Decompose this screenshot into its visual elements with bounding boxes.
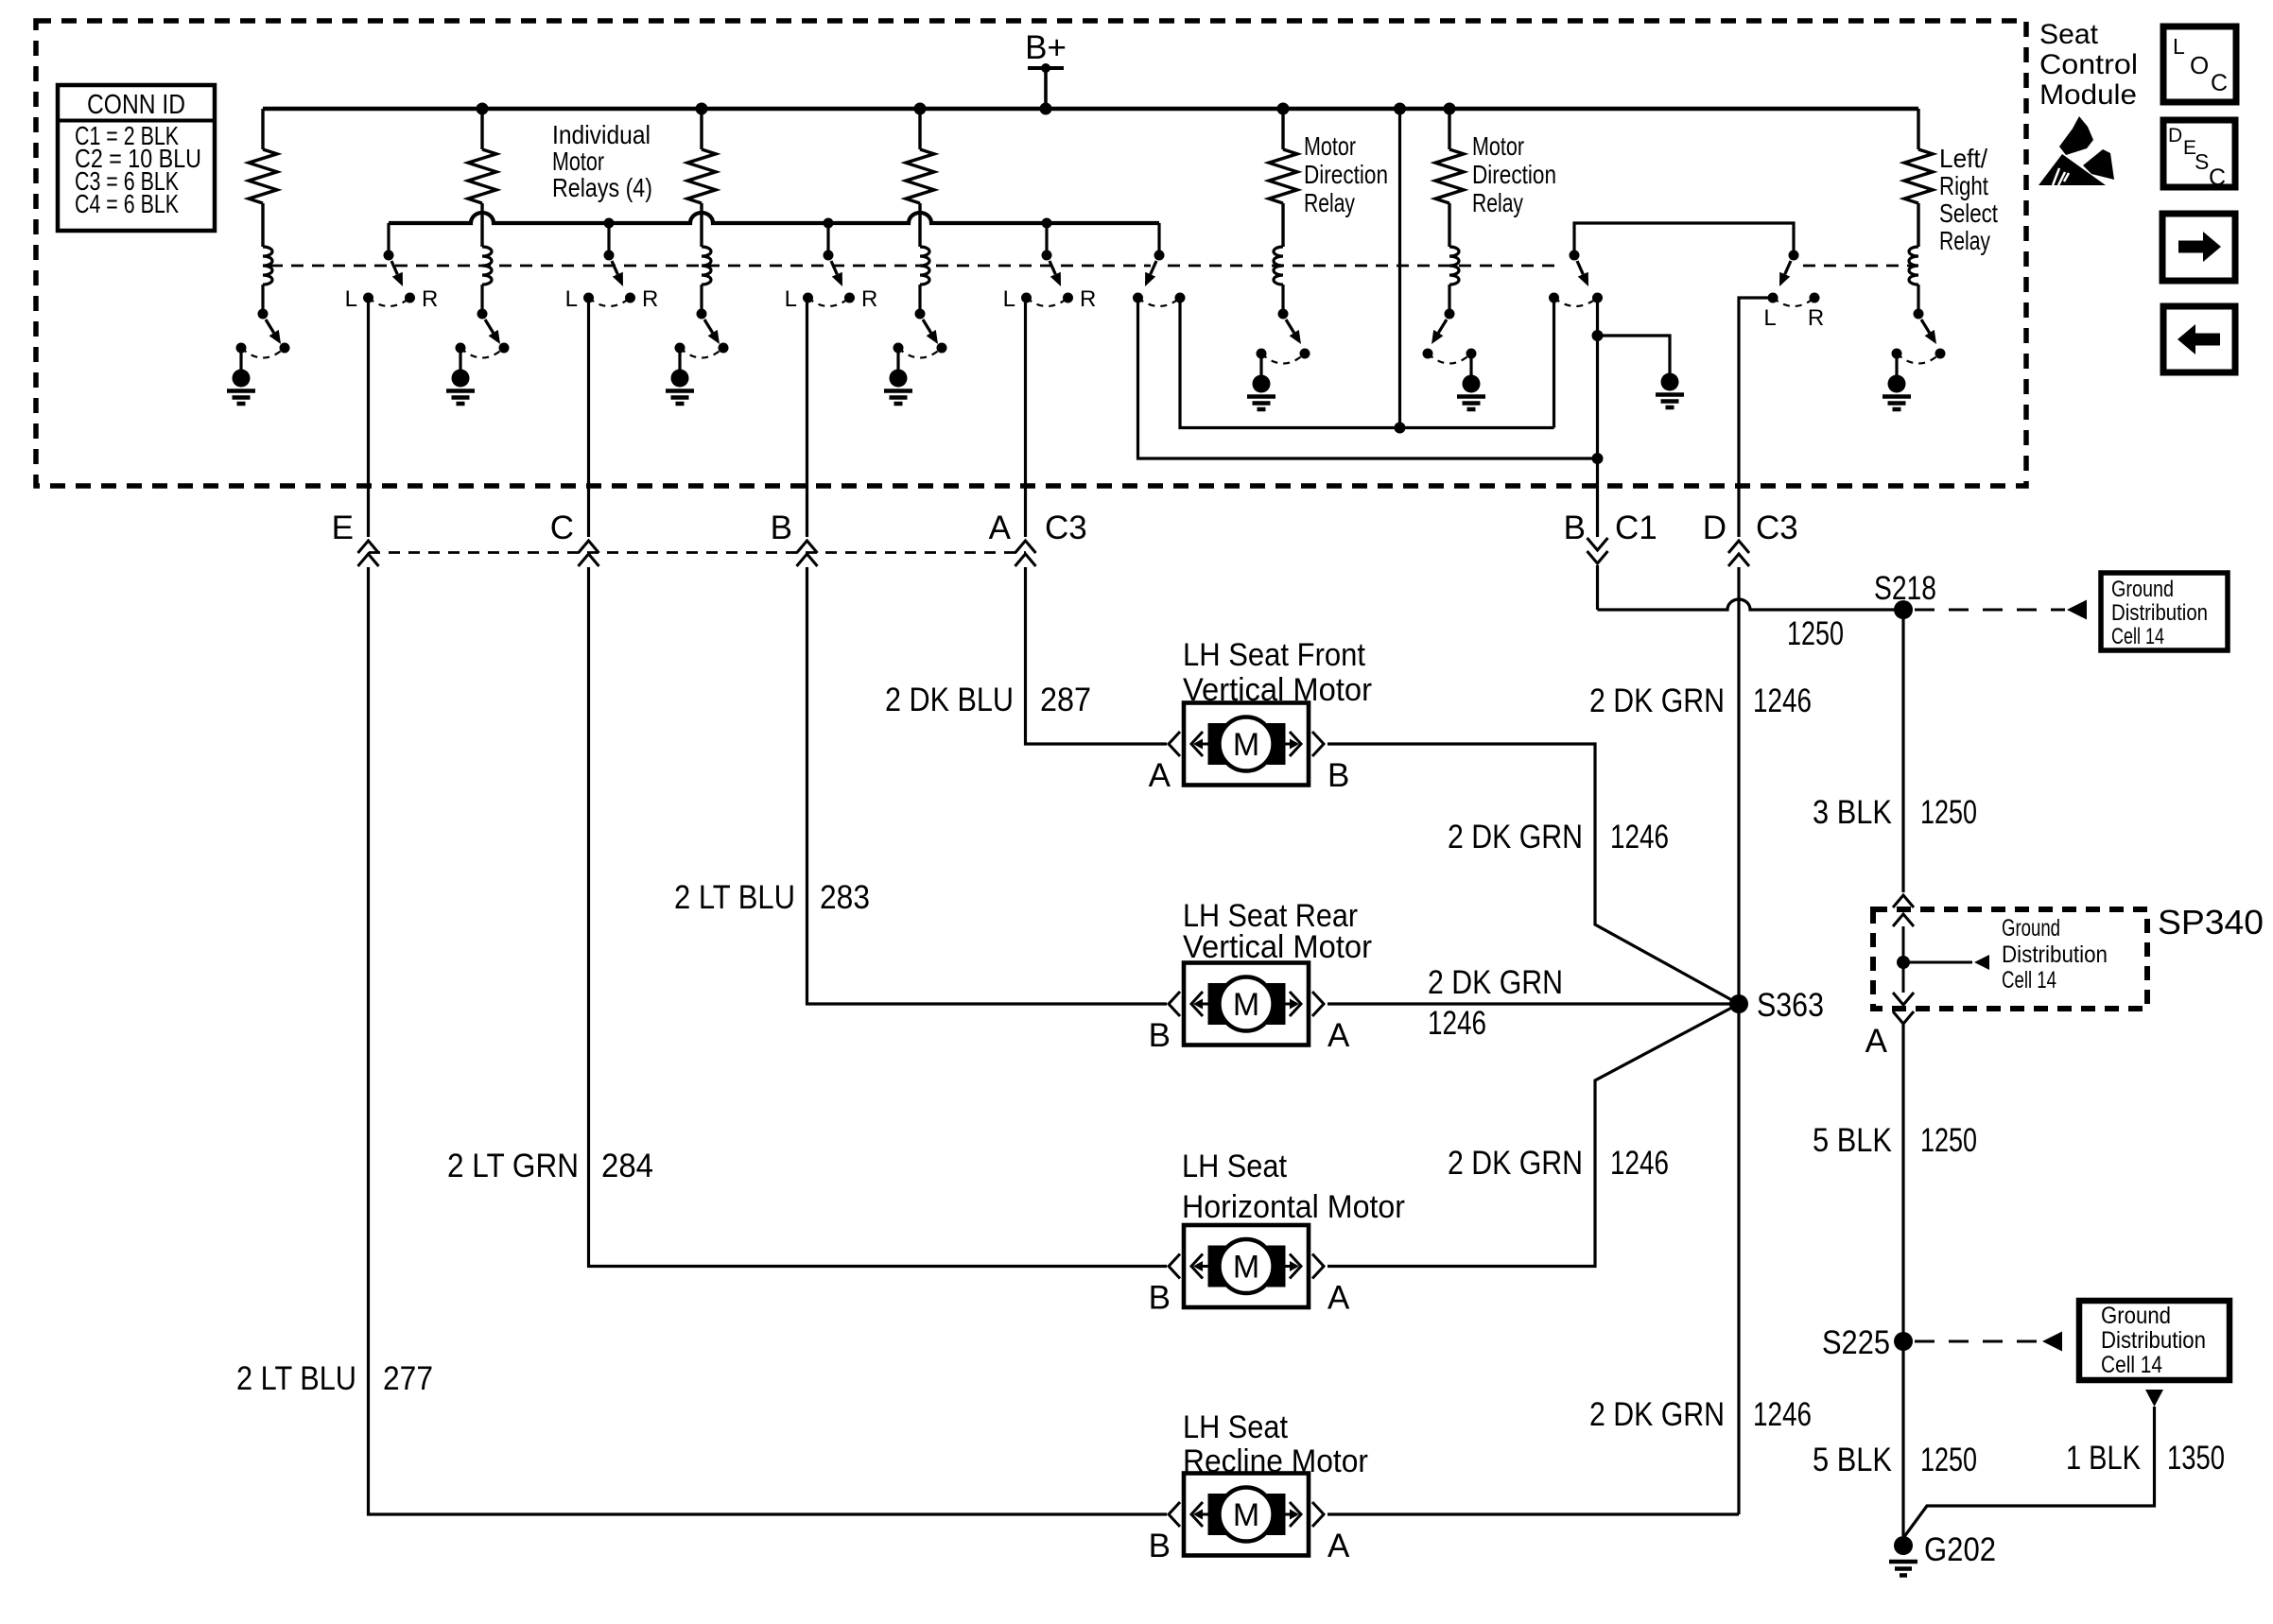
- wire: pin A from switch to border: [1024, 302, 1027, 537]
- label: connector C1: [1615, 510, 1657, 546]
- label: L/R of pair 3: [785, 286, 878, 312]
- wire: pair6 L to crossover: [1553, 302, 1555, 428]
- relay K2 resistor: [468, 109, 496, 203]
- svg-text:L: L: [1763, 305, 1776, 331]
- svg-text:1250: 1250: [1920, 794, 1977, 831]
- ground (relay K4): [884, 353, 912, 404]
- label: G202: [1924, 1531, 1996, 1568]
- label: 3 BLK 1250: [1813, 794, 1977, 831]
- svg-text:SP340: SP340: [2158, 903, 2264, 942]
- label: Motor Direction Relay (left): [1304, 131, 1388, 217]
- svg-text:M: M: [1233, 1250, 1259, 1286]
- label: S225: [1822, 1324, 1890, 1361]
- switch pair 5: [1133, 251, 1186, 307]
- seat control module dashed enclosure: [36, 21, 2026, 486]
- svg-text:Horizontal Motor: Horizontal Motor: [1182, 1189, 1405, 1225]
- svg-text:R: R: [1080, 286, 1096, 312]
- relay K4 coil: [920, 203, 929, 285]
- svg-text:E: E: [332, 510, 354, 546]
- reference arrow (S225): [2042, 1332, 2062, 1352]
- label: S218: [1874, 570, 1936, 607]
- svg-text:Motor: Motor: [552, 147, 604, 176]
- svg-text:Distribution: Distribution: [2002, 942, 2108, 968]
- motor direction relay K6 coil: [1449, 203, 1459, 285]
- svg-text:L: L: [1003, 286, 1015, 312]
- node: SP340 junction: [1897, 956, 1910, 969]
- relay K3 coil: [702, 203, 711, 285]
- ground (relay K2): [446, 353, 475, 404]
- svg-text:2 DK GRN: 2 DK GRN: [1589, 1396, 1725, 1433]
- relay K2 switch: [456, 285, 510, 358]
- wire: pin E from switch to border: [367, 302, 370, 537]
- wire 284: pin C to horizontal motor: [589, 567, 1168, 1267]
- svg-text:Ground: Ground: [2101, 1303, 2171, 1329]
- relay K1 switch: [236, 285, 290, 358]
- relay K2 coil: [482, 203, 492, 285]
- svg-text:A: A: [1327, 1017, 1350, 1054]
- node: sub-bus junction: [604, 218, 615, 229]
- box: Ground Distribution Cell 14 (S225): [2079, 1301, 2230, 1380]
- node: bus tap for relay K2: [477, 103, 489, 115]
- label: connector C3 (pin A): [1045, 510, 1087, 546]
- label: 5 BLK 1250 (upper): [1813, 1122, 1977, 1159]
- relay K4 resistor: [906, 109, 934, 203]
- box: Ground Distribution Cell 14 (S218): [2101, 573, 2228, 650]
- node: ground branch junction: [1592, 330, 1604, 341]
- svg-text:S363: S363: [1757, 987, 1824, 1024]
- wire: pair5 R to crossover: [1180, 302, 1554, 428]
- svg-text:1246: 1246: [1428, 1005, 1486, 1042]
- label: pin B (C1): [1564, 510, 1586, 546]
- relay K3 switch: [675, 285, 729, 358]
- svg-text:LH Seat Front: LH Seat Front: [1183, 637, 1366, 673]
- svg-text:284: 284: [601, 1148, 653, 1184]
- svg-text:C: C: [550, 510, 574, 546]
- svg-text:G202: G202: [1924, 1531, 1996, 1568]
- dashed mechanical linkage line: [270, 265, 1912, 268]
- wire 287: pin A to front vertical motor: [1026, 567, 1168, 744]
- svg-text:LH Seat: LH Seat: [1183, 1409, 1288, 1445]
- switch pair 6: [1549, 251, 1603, 307]
- svg-text:A: A: [989, 510, 1012, 546]
- label: pin D (C3): [1703, 510, 1726, 546]
- connector C3 dashed line: [369, 551, 1026, 554]
- label: connector C3 (pin D): [1756, 510, 1798, 546]
- svg-text:M: M: [1233, 987, 1259, 1023]
- svg-text:A: A: [1865, 1023, 1888, 1060]
- wire: B+ bus: [263, 107, 1918, 112]
- label: 2 LT BLU 283: [674, 879, 870, 916]
- SP340 top pin chevrons: [1893, 895, 1914, 926]
- svg-text:D: D: [2168, 125, 2182, 147]
- svg-text:1250: 1250: [1920, 1442, 1977, 1478]
- wire: pin C from switch to border: [587, 302, 590, 537]
- svg-text:A: A: [1149, 757, 1171, 794]
- label: pin C: [550, 510, 574, 546]
- svg-text:C1: C1: [1615, 510, 1657, 546]
- relay K1 resistor: [249, 109, 277, 203]
- node: B/C1 junction: [1592, 453, 1604, 464]
- label: 2 DK GRN 1246 (trunk upper): [1589, 682, 1812, 719]
- label: Seat Control Module: [2039, 19, 2138, 111]
- SP340 splice pack dashed box: [1873, 909, 2147, 1009]
- wire 1246: recline motor to trunk: [1327, 1512, 1739, 1515]
- svg-text:Direction: Direction: [1304, 160, 1388, 189]
- svg-text:Ground: Ground: [2002, 915, 2060, 942]
- svg-text:B: B: [1327, 757, 1349, 794]
- wire: SP340 ground reference: [1903, 961, 1972, 964]
- svg-text:2 DK GRN: 2 DK GRN: [1428, 964, 1563, 1001]
- svg-text:2 DK BLU: 2 DK BLU: [885, 682, 1014, 718]
- icon: right arrow button: [2162, 214, 2235, 281]
- node: bus tap for select feed: [1394, 103, 1406, 115]
- wire 1250: SP340 to S225: [1901, 1024, 1904, 1341]
- icon: left arrow button: [2163, 306, 2235, 372]
- svg-text:2 LT GRN: 2 LT GRN: [447, 1148, 579, 1184]
- wire 283: pin B to rear vertical motor: [807, 567, 1168, 1004]
- wire: SP340 internal: [1902, 926, 1905, 993]
- svg-text:283: 283: [820, 879, 870, 916]
- reference arrow down (G202 feed): [2145, 1390, 2163, 1407]
- node: bus tap for relay K4: [914, 103, 927, 115]
- label: L/R of pair 4: [1003, 286, 1097, 312]
- svg-text:Vertical Motor: Vertical Motor: [1183, 929, 1372, 965]
- label: 5 BLK 1250 (lower): [1813, 1442, 1977, 1478]
- svg-text:C3: C3: [1756, 510, 1798, 546]
- svg-text:M: M: [1233, 727, 1259, 763]
- label: 2 DK GRN 1246 (M1 branch): [1448, 819, 1669, 855]
- ground (relay K5): [1247, 358, 1275, 409]
- svg-text:S: S: [2195, 149, 2209, 174]
- switch pair 4 (output): [1021, 223, 1073, 306]
- relay K1 coil: [263, 203, 272, 285]
- label: Ground Distribution Cell 14 (SP340): [2002, 915, 2108, 993]
- svg-text:Distribution: Distribution: [2101, 1327, 2206, 1354]
- svg-text:Left/: Left/: [1939, 144, 1987, 173]
- svg-text:LH Seat: LH Seat: [1182, 1149, 1287, 1184]
- svg-text:R: R: [422, 286, 438, 312]
- svg-text:2 LT BLU: 2 LT BLU: [236, 1360, 356, 1397]
- wire 1246: front vertical motor to S363: [1327, 744, 1739, 1004]
- relay K4 switch: [894, 285, 947, 358]
- svg-text:Distribution: Distribution: [2111, 600, 2208, 626]
- svg-text:Motor: Motor: [1304, 131, 1356, 161]
- label: SP340: [2158, 903, 2264, 942]
- ground (relay K6): [1457, 358, 1485, 409]
- CONN ID table: [58, 85, 215, 231]
- icon: ESD warning symbol: [2039, 116, 2114, 185]
- svg-text:M: M: [1233, 1497, 1259, 1533]
- relay K3 resistor: [687, 109, 716, 203]
- wire: bus drop to crossover: [1398, 109, 1401, 428]
- svg-text:Select: Select: [1939, 199, 1998, 228]
- svg-text:B: B: [1149, 1528, 1171, 1564]
- label: 1 BLK 1350: [2066, 1440, 2225, 1477]
- motor direction relay K6 switch: [1423, 285, 1477, 364]
- label: 2 DK BLU 287: [885, 682, 1091, 718]
- wire: pair6 R down: [1596, 302, 1599, 458]
- node S363: [1729, 994, 1748, 1013]
- svg-text:Module: Module: [2039, 79, 2137, 111]
- svg-text:B: B: [1564, 510, 1586, 546]
- ground (relay K3): [666, 353, 694, 404]
- svg-text:L: L: [565, 286, 578, 312]
- svg-text:L: L: [2173, 34, 2185, 59]
- svg-text:2 LT BLU: 2 LT BLU: [674, 879, 795, 916]
- svg-text:Seat: Seat: [2039, 19, 2099, 50]
- node: bus tap for motor direction relay K6: [1444, 103, 1456, 115]
- label: 1246 (M2 wire): [1428, 1005, 1486, 1042]
- svg-text:A: A: [1327, 1528, 1350, 1564]
- svg-text:Motor: Motor: [1472, 131, 1524, 161]
- label: 2 DK GRN 1246 (M3 branch): [1448, 1145, 1669, 1182]
- label: Individual Motor Relays (4): [552, 120, 652, 202]
- pin D/C3 connector chevrons: [1728, 541, 1749, 566]
- switch pair 3 (output): [803, 223, 855, 306]
- svg-text:1246: 1246: [1753, 1396, 1812, 1433]
- svg-text:2 DK GRN: 2 DK GRN: [1448, 819, 1583, 855]
- wire 1350: cell14 to G202: [1903, 1407, 2155, 1538]
- pin C connector chevrons: [579, 541, 599, 566]
- svg-text:5 BLK: 5 BLK: [1813, 1442, 1892, 1478]
- wire: pin B from switch to border: [806, 302, 808, 537]
- svg-text:277: 277: [383, 1360, 433, 1397]
- label: L/R of pair 2: [565, 286, 659, 312]
- pin A connector chevrons: [1015, 541, 1036, 566]
- svg-text:O: O: [2190, 51, 2209, 79]
- svg-text:2 DK GRN: 2 DK GRN: [1448, 1145, 1583, 1182]
- SP340 bottom pin chevrons: [1893, 993, 1914, 1024]
- label: pin E: [332, 510, 354, 546]
- svg-text:R: R: [642, 286, 658, 312]
- pin B/C1 connector chevrons: [1588, 538, 1608, 563]
- motor direction relay K5 coil: [1274, 203, 1283, 285]
- svg-text:3 BLK: 3 BLK: [1813, 794, 1892, 831]
- ground (internal branch): [1656, 373, 1684, 408]
- left/right select relay resistor: [1904, 109, 1933, 203]
- svg-text:Cell 14: Cell 14: [2101, 1352, 2162, 1378]
- svg-text:R: R: [1808, 305, 1824, 331]
- svg-text:1350: 1350: [2167, 1440, 2225, 1477]
- wire: ground branch: [1598, 336, 1671, 373]
- svg-text:Relays (4): Relays (4): [552, 173, 652, 202]
- svg-text:L: L: [785, 286, 797, 312]
- reference arrow (S218): [2067, 600, 2087, 620]
- svg-text:Right: Right: [1939, 171, 1988, 200]
- svg-text:1 BLK: 1 BLK: [2066, 1440, 2141, 1477]
- LH Seat Recline Motor: [1149, 1409, 1368, 1564]
- svg-text:5 BLK: 5 BLK: [1813, 1122, 1892, 1159]
- label: Motor Direction Relay (right): [1472, 131, 1556, 217]
- svg-text:Control: Control: [2039, 49, 2138, 80]
- label: Left/Right Select Relay: [1939, 144, 1998, 255]
- left/right select relay switch: [1892, 285, 1946, 364]
- wire 1246: rear vertical motor to S363: [1327, 1002, 1739, 1005]
- node S218: [1894, 600, 1913, 619]
- svg-text:C4 = 6 BLK: C4 = 6 BLK: [75, 189, 179, 218]
- wire: B/C1 down through border: [1596, 458, 1599, 537]
- LH Seat Front Vertical Motor: [1149, 637, 1372, 794]
- svg-text:B: B: [771, 510, 792, 546]
- svg-text:1250: 1250: [1920, 1122, 1977, 1159]
- ground (relay K1): [227, 353, 255, 404]
- svg-text:B+: B+: [1025, 29, 1067, 66]
- svg-text:Relay: Relay: [1939, 226, 1990, 255]
- label: pin A: [989, 510, 1012, 546]
- wire: sub-bus end down to pair 5 pivot: [1157, 223, 1160, 251]
- node: sub-bus junction: [1042, 218, 1052, 229]
- wire 1246: horizontal motor to S363: [1327, 1004, 1739, 1267]
- label: pin B: [771, 510, 792, 546]
- label: 2 LT GRN 284: [447, 1148, 653, 1184]
- ground (left/right select relay): [1883, 358, 1911, 409]
- label: S363: [1757, 987, 1824, 1024]
- ground G202: [1889, 1536, 1917, 1576]
- switch pair 1 (output): [363, 223, 415, 306]
- label: L/R of pair 7: [1763, 305, 1824, 331]
- wire: S218 dashed reference: [1915, 609, 2065, 612]
- svg-text:L: L: [345, 286, 357, 312]
- wire: pivot bridge pair6-pair7: [1574, 223, 1794, 251]
- svg-text:C: C: [2211, 70, 2228, 96]
- svg-text:A: A: [1327, 1280, 1350, 1317]
- svg-text:C3: C3: [1045, 510, 1087, 546]
- label: SP340 pin A: [1865, 1023, 1888, 1060]
- label: 2 DK GRN (M2 wire): [1428, 964, 1563, 1001]
- pin B connector chevrons: [797, 541, 818, 566]
- motor direction relay K6 resistor: [1435, 109, 1464, 203]
- svg-text:1246: 1246: [1610, 1145, 1669, 1182]
- wire: S225 dashed reference: [1915, 1340, 2040, 1343]
- node: crossover junction: [1395, 423, 1406, 434]
- node: sub-bus junction: [824, 218, 834, 229]
- pin E connector chevrons: [358, 541, 379, 566]
- wire 1250: B/C1 to S218: [1598, 565, 1904, 610]
- motor direction relay K5 switch: [1257, 285, 1310, 364]
- wire 1250: S218 to SP340: [1901, 610, 1904, 892]
- svg-text:R: R: [861, 286, 877, 312]
- svg-text:Relay: Relay: [1472, 188, 1523, 217]
- svg-text:Ground: Ground: [2111, 577, 2174, 602]
- left/right select relay coil: [1909, 203, 1918, 285]
- wire: relay switch common sub-bus with hops: [389, 213, 1159, 223]
- svg-text:Cell 14: Cell 14: [2002, 967, 2056, 993]
- B+ supply terminal: [1025, 29, 1067, 115]
- node S225: [1894, 1332, 1913, 1351]
- svg-text:D: D: [1703, 510, 1726, 546]
- svg-text:1246: 1246: [1753, 682, 1812, 719]
- svg-text:2 DK GRN: 2 DK GRN: [1589, 682, 1725, 719]
- svg-text:S218: S218: [1874, 570, 1936, 607]
- label: 2 LT BLU 277: [236, 1360, 433, 1397]
- svg-text:1246: 1246: [1610, 819, 1669, 855]
- wire 1250: S225 to G202: [1901, 1341, 1904, 1536]
- wire: pair7 L to D/C3: [1739, 298, 1773, 537]
- label: 1250 (S218 feed): [1787, 615, 1844, 652]
- svg-text:1250: 1250: [1787, 615, 1844, 652]
- wire 277: pin E to recline motor: [369, 567, 1168, 1514]
- label: L/R of pair 1: [345, 286, 439, 312]
- svg-text:S225: S225: [1822, 1324, 1890, 1361]
- svg-text:Direction: Direction: [1472, 160, 1556, 189]
- LH Seat Rear Vertical Motor: [1149, 898, 1372, 1054]
- icon: LOC button: [2163, 26, 2236, 102]
- LH Seat Horizontal Motor: [1149, 1149, 1405, 1317]
- svg-text:C: C: [2209, 164, 2226, 191]
- wire 1246: D/C3 trunk: [1737, 567, 1740, 1514]
- svg-text:Individual: Individual: [552, 120, 651, 149]
- reference arrow (SP340): [1974, 955, 1989, 970]
- svg-text:287: 287: [1040, 682, 1091, 718]
- switch pair 2 (output): [583, 223, 635, 306]
- node: bus tap for relay K3: [696, 103, 708, 115]
- svg-text:B: B: [1149, 1017, 1171, 1054]
- svg-text:CONN ID: CONN ID: [87, 90, 185, 120]
- switch pair 7: [1768, 251, 1820, 307]
- node: bus tap for motor direction relay K5: [1277, 103, 1290, 115]
- svg-text:B: B: [1149, 1280, 1171, 1317]
- wire: pair5 L to B/C1 junction: [1138, 302, 1598, 458]
- icon: DESC button: [2163, 120, 2235, 191]
- label: 2 DK GRN 1246 (trunk lower): [1589, 1396, 1812, 1433]
- svg-text:Cell 14: Cell 14: [2111, 624, 2164, 649]
- motor direction relay K5 resistor: [1269, 109, 1297, 203]
- svg-text:Relay: Relay: [1304, 188, 1355, 217]
